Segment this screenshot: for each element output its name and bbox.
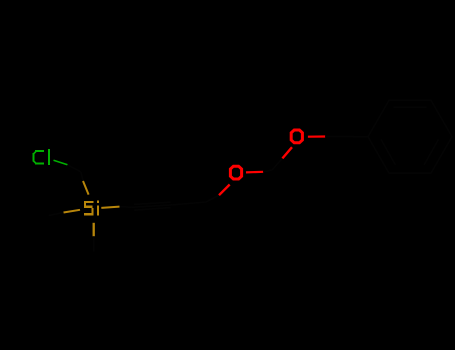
bond Si-methyl-left (carbon half, faint) — [49, 213, 64, 216]
bond C7-Si (Si half, olive) — [83, 181, 89, 195]
bond O2-C5 (carbon half, faint) — [325, 135, 339, 137]
atom label O2 — [291, 130, 302, 143]
bond O1-C4 (carbon half, faint) — [263, 170, 272, 172]
bond C3-O1 (O half, red) — [219, 185, 230, 196]
bond Si-methyl-down (Si half, olive) — [93, 223, 95, 237]
bond Cl-C7 (Cl half, green) — [54, 160, 68, 165]
bond C4-O2 (O half, red) — [282, 147, 292, 158]
bond C5-C6 benzylic (faint) — [339, 135, 368, 137]
bond O1-C4 (O half, red) — [246, 171, 263, 174]
atom label Cl — [32, 149, 50, 165]
bond O2-C5 (O half, red) — [308, 135, 325, 137]
bond Si-methyl-left (Si half, olive) — [64, 210, 81, 213]
bond C3-O1 (carbon half, faint) — [206, 195, 219, 202]
atom label O1 — [230, 166, 241, 179]
atom label Si — [84, 201, 99, 216]
bond C4-O2 (carbon half, faint) — [272, 158, 282, 170]
triple bond C1-C2 (faint) — [132, 202, 174, 210]
bond Si-methyl-down (carbon half, faint) — [93, 236, 95, 251]
benzene ring (faint) — [368, 100, 452, 173]
bond Si-C1 (Si half, olive) — [101, 207, 119, 208]
bond Si-C1 (carbon half, faint) — [120, 206, 132, 209]
benzene aromatic inner bonds (faint) — [381, 107, 439, 165]
bond C7-Si (carbon half, faint) — [81, 172, 83, 181]
bond Cl-C7 (carbon half, faint) — [68, 165, 81, 172]
bond C2-C3 (faint) — [173, 202, 206, 205]
